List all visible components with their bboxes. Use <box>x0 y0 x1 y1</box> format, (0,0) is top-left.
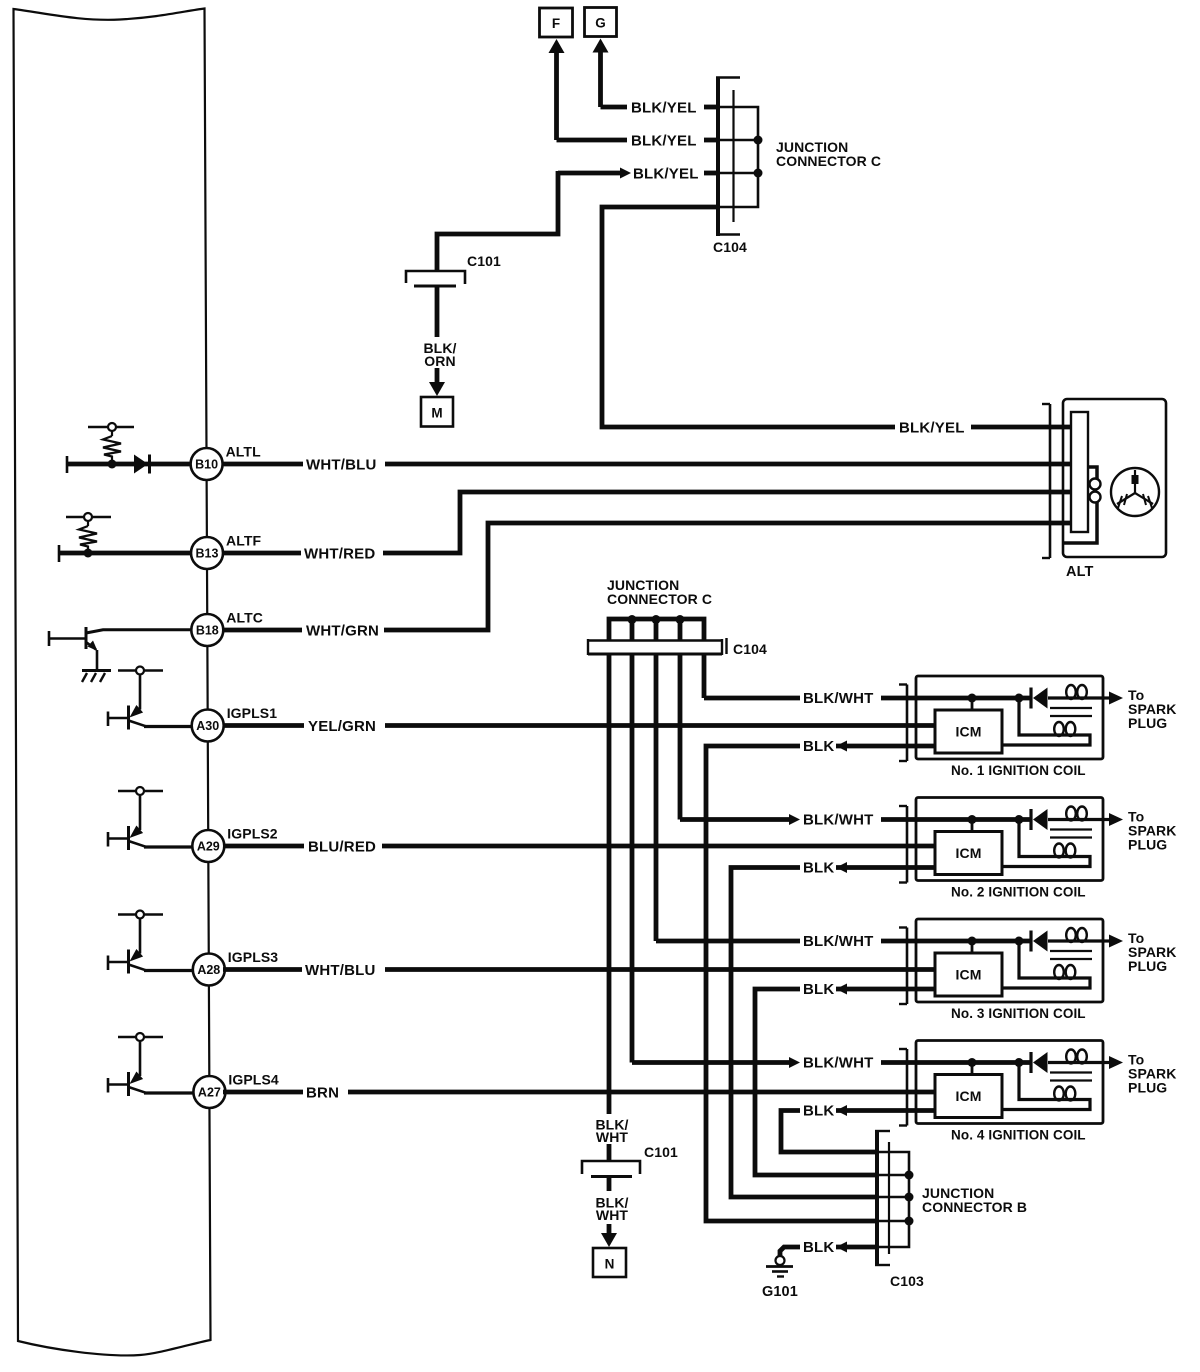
No.3 coil connector bracket <box>899 928 907 1005</box>
svg-text:C101: C101 <box>467 253 501 269</box>
resistor R2 <box>79 521 97 553</box>
collector bar above Q2 <box>118 669 163 672</box>
terminal box N <box>593 1248 626 1277</box>
core lines No.4 <box>1050 1073 1092 1081</box>
label JUNCTION CONNECTOR C (middle) <box>607 577 712 607</box>
junction dot 2b <box>1015 815 1024 824</box>
label BLK/YEL row 3 <box>633 166 699 183</box>
arrow into G <box>593 39 609 108</box>
transistor Q1 base bar <box>85 627 88 649</box>
label ALTF <box>226 533 261 549</box>
ALT pin stub 4 <box>1048 521 1071 526</box>
svg-text:C101: C101 <box>644 1144 678 1160</box>
junction connector C (middle) bus bar <box>609 619 704 640</box>
label ALTL <box>226 444 261 460</box>
resistor R1 <box>103 431 121 464</box>
junction dot C103 row4 <box>905 1217 914 1226</box>
wire WHT/GRN (ALTC) <box>223 523 1048 630</box>
wire WHT/BLU (ALTL) <box>223 462 1048 467</box>
svg-text:PLUG: PLUG <box>1128 715 1167 731</box>
ICM module U1 <box>935 710 1002 753</box>
svg-text:BLK/WHT: BLK/WHT <box>803 690 874 707</box>
label To SPARK PLUG No.2 <box>1128 809 1176 853</box>
ICM U2 top lead <box>971 820 974 832</box>
ALT rotor circle <box>1111 468 1159 516</box>
label WHT/GRN (ALTC) <box>306 623 379 640</box>
ECM pin B10 <box>191 448 223 480</box>
junction connector B (C103) bus bracket <box>879 1152 909 1247</box>
svg-text:IGPLS1: IGPLS1 <box>227 705 278 721</box>
svg-text:IGPLS4: IGPLS4 <box>228 1072 279 1088</box>
ICM U3 top lead <box>971 941 974 953</box>
junction dot 4b <box>1015 1058 1024 1067</box>
junction connector C (C104 top) body <box>716 77 740 236</box>
svg-text:IGPLS2: IGPLS2 <box>227 826 278 842</box>
wire BLK to ground G101 <box>780 1247 877 1256</box>
alternator ALT case <box>1063 399 1166 557</box>
wire BLK/WHT to No.2 coil <box>680 814 1031 825</box>
terminal tick B10 row <box>66 456 69 473</box>
wire B13 internal <box>59 551 191 556</box>
wire BLK/YEL row 1 (to G) <box>601 105 721 110</box>
primary winding No.4 <box>1048 1050 1103 1064</box>
svg-text:BLK: BLK <box>803 860 834 877</box>
diode D4 <box>1031 931 1048 952</box>
label No. 1 IGNITION COIL <box>951 763 1086 778</box>
svg-text:WHT/RED: WHT/RED <box>304 546 375 563</box>
label BLK (No.2 coil) <box>803 860 834 877</box>
label BLK/YEL row 2 <box>631 133 697 150</box>
transistor Q3 <box>108 795 193 850</box>
ICM module U4 <box>935 1075 1002 1118</box>
junction dot 2a <box>968 815 977 824</box>
ICM U1 top lead <box>971 698 974 710</box>
open terminal circle Q2 <box>136 667 144 675</box>
ground G101 symbol <box>766 1256 793 1277</box>
svg-text:BRN: BRN <box>306 1085 339 1102</box>
wire WHT/RED (ALTF) <box>223 492 1048 553</box>
label C103 <box>890 1273 924 1289</box>
svg-text:A28: A28 <box>197 963 220 977</box>
svg-text:ICM: ICM <box>956 1088 982 1104</box>
junction connector C (middle) body <box>588 638 727 655</box>
core lines No.3 <box>1050 951 1092 959</box>
svg-text:ICM: ICM <box>956 845 982 861</box>
svg-text:BLK/WHT: BLK/WHT <box>803 933 874 950</box>
connector C101 (bottom) <box>582 1161 640 1177</box>
transistor Q2 <box>108 675 193 730</box>
junction dot 4a <box>968 1058 977 1067</box>
label ALT <box>1066 564 1093 580</box>
svg-text:BLK/WHT: BLK/WHT <box>803 812 874 829</box>
ECM pin A27 <box>193 1076 225 1108</box>
primary winding No.3 <box>1048 928 1103 942</box>
label JUNCTION CONNECTOR B <box>922 1185 1027 1215</box>
svg-text:No. 1 IGNITION COIL: No. 1 IGNITION COIL <box>951 763 1086 778</box>
wire pin1 vertical (BLK/WHT to C101 bottom) <box>607 654 612 1114</box>
svg-text:CONNECTOR C: CONNECTOR C <box>776 153 881 169</box>
open terminal circle Q3 <box>136 787 144 795</box>
arrowhead on BLK/YEL row 3 <box>620 168 631 179</box>
terminal box G <box>585 8 617 37</box>
connector C101 (top) <box>406 271 465 286</box>
No.2 ignition coil case <box>916 798 1103 881</box>
junction dot C104 top row3 <box>754 169 763 178</box>
ALT stator winding lead <box>1064 467 1097 543</box>
wire BLK return from No.2 coil <box>731 862 936 1197</box>
svg-text:ORN: ORN <box>424 353 455 369</box>
wire BLK/WHT to No.4 coil <box>632 1057 1031 1068</box>
wire BRN (IGPLS4) <box>223 1090 936 1095</box>
label BLK (No.1 coil) <box>803 738 834 755</box>
secondary winding No.2 <box>1003 820 1090 867</box>
primary winding No.1 <box>1048 685 1103 699</box>
wire BLK/WHT to No.1 coil <box>704 696 1031 701</box>
svg-text:A27: A27 <box>198 1086 221 1100</box>
junction dot 3a <box>968 937 977 946</box>
junction dot 3b <box>1015 937 1024 946</box>
collector bar above Q3 <box>118 790 163 793</box>
No.2 coil connector bracket <box>899 806 907 883</box>
label C104 (middle) <box>733 641 767 657</box>
transistor Q1 base lead <box>49 637 86 640</box>
label BLK (No.3 coil) <box>803 981 834 998</box>
label BLK/WHT (No.2 coil) <box>803 812 874 829</box>
svg-text:No. 2 IGNITION COIL: No. 2 IGNITION COIL <box>951 885 1086 900</box>
wire pin2 vertical (to No.4 coil) <box>630 654 635 1063</box>
svg-text:PLUG: PLUG <box>1128 1080 1167 1096</box>
open terminal circle R1 <box>108 423 116 431</box>
secondary winding No.3 <box>1003 941 1090 988</box>
junction connector B (C103) body <box>875 1130 890 1266</box>
ALT connector bracket <box>1042 404 1050 558</box>
core lines No.1 <box>1050 708 1092 716</box>
arrow into F <box>549 39 565 140</box>
label C104 (top) <box>713 239 747 255</box>
arrowhead BLK ground wire <box>836 1242 847 1253</box>
ALT pin stub 2 <box>1048 462 1071 467</box>
svg-text:B18: B18 <box>196 624 219 638</box>
secondary winding No.4 <box>1003 1063 1090 1110</box>
ECM pin A28 <box>193 954 225 986</box>
junction dot C104-mid pin4 <box>676 615 685 624</box>
label C101 (bottom) <box>644 1144 678 1160</box>
pull-up bar above R1 <box>88 426 134 429</box>
ECM pin B18 <box>191 614 223 646</box>
arrow to spark plug No.1 <box>1103 692 1123 705</box>
No.4 coil connector bracket <box>899 1049 907 1126</box>
svg-text:ICM: ICM <box>956 967 982 983</box>
ICM module U3 <box>935 953 1002 996</box>
svg-text:C104: C104 <box>713 239 747 255</box>
arrow into N <box>601 1224 617 1247</box>
ground under Q1 <box>82 671 111 683</box>
svg-text:PLUG: PLUG <box>1128 958 1167 974</box>
ALT pin stub 1 <box>1048 425 1071 430</box>
label IGPLS3 <box>228 949 279 965</box>
collector bar above Q4 <box>118 913 163 916</box>
wire WHT/BLU (IGPLS3) <box>223 967 936 972</box>
label G101 <box>762 1284 798 1300</box>
svg-text:BLK/YEL: BLK/YEL <box>899 420 965 437</box>
svg-text:C104: C104 <box>733 641 767 657</box>
svg-text:BLK: BLK <box>803 1239 834 1256</box>
svg-text:C103: C103 <box>890 1273 924 1289</box>
label BLK/YEL (ALT feed) <box>899 420 965 437</box>
ICM module U2 <box>935 832 1002 875</box>
label YEL/GRN (IGPLS1) <box>308 718 376 735</box>
svg-text:ALTL: ALTL <box>226 444 261 460</box>
collector bar above Q5 <box>118 1036 163 1039</box>
svg-text:CONNECTOR C: CONNECTOR C <box>607 591 712 607</box>
core lines No.2 <box>1050 830 1092 838</box>
diode D5 <box>1031 1052 1048 1073</box>
No.1 ignition coil case <box>916 676 1103 759</box>
svg-text:N: N <box>605 1257 615 1272</box>
label BLK/WHT (below C101 bottom) <box>595 1195 628 1224</box>
junction dot B13/resistor <box>84 549 93 558</box>
label To SPARK PLUG No.1 <box>1128 687 1176 731</box>
label C101 (top) <box>467 253 501 269</box>
junction dot C104 top row2 <box>754 136 763 145</box>
wire below C101 bottom <box>607 1177 612 1192</box>
ECM pin A29 <box>192 830 224 862</box>
transistor Q4 <box>108 919 193 974</box>
svg-text:WHT/GRN: WHT/GRN <box>306 623 379 640</box>
svg-text:G: G <box>595 16 606 31</box>
svg-text:A30: A30 <box>196 719 219 733</box>
label No. 4 IGNITION COIL <box>951 1128 1086 1143</box>
transistor Q1 collector lead <box>86 630 191 633</box>
ALT pin stub 3 <box>1048 490 1071 495</box>
svg-text:PLUG: PLUG <box>1128 837 1167 853</box>
wire BLK/ORN <box>435 286 440 337</box>
label BLK/WHT (No.1 coil) <box>803 690 874 707</box>
svg-text:YEL/GRN: YEL/GRN <box>308 718 376 735</box>
wire BLK return from No.1 coil <box>706 741 936 1222</box>
svg-text:B10: B10 <box>195 458 218 472</box>
svg-text:BLK: BLK <box>803 738 834 755</box>
svg-text:No. 3 IGNITION COIL: No. 3 IGNITION COIL <box>951 1006 1086 1021</box>
label WHT/RED (ALTF) <box>304 546 375 563</box>
svg-text:CONNECTOR B: CONNECTOR B <box>922 1199 1027 1215</box>
ALT stator coil loops <box>1090 479 1101 503</box>
wire pin4 vertical (to No.2 coil) <box>678 654 683 820</box>
wire BLK return from No.4 coil <box>781 1105 936 1152</box>
transistor Q5 <box>108 1041 193 1096</box>
junction dot C103 row2 <box>905 1171 914 1180</box>
junction dot C104-mid pin2 <box>628 615 637 624</box>
junction connector C (C104 top) bus bracket <box>719 107 758 207</box>
terminal tick B18 row <box>48 631 51 646</box>
transistor Q1 emitter lead <box>86 641 98 670</box>
svg-text:BLK/YEL: BLK/YEL <box>631 133 697 150</box>
arrow to spark plug No.4 <box>1103 1056 1123 1069</box>
svg-text:ALTC: ALTC <box>226 610 263 626</box>
diode D1 <box>134 455 150 474</box>
label To SPARK PLUG No.3 <box>1128 930 1176 974</box>
wire pin5 vertical (to No.1 coil) <box>702 654 707 698</box>
label No. 2 IGNITION COIL <box>951 885 1086 900</box>
wire B10 internal <box>67 462 191 467</box>
junction dot B10/resistor <box>108 460 117 469</box>
label JUNCTION CONNECTOR C (top) <box>776 139 881 169</box>
svg-text:WHT/BLU: WHT/BLU <box>306 457 377 474</box>
label BLU/RED (IGPLS2) <box>308 839 376 856</box>
wire BLK/YEL row 2 (to F) <box>557 138 721 143</box>
svg-text:WHT: WHT <box>596 1129 629 1145</box>
svg-text:ALT: ALT <box>1066 564 1093 580</box>
pull-up bar above R2 <box>66 516 111 519</box>
open terminal circle R2 <box>84 513 92 521</box>
svg-text:BLU/RED: BLU/RED <box>308 839 376 856</box>
svg-text:ICM: ICM <box>956 724 982 740</box>
label BLK/ORN <box>423 340 456 369</box>
label BLK (ground wire) <box>803 1239 834 1256</box>
label BRN (IGPLS4) <box>306 1085 339 1102</box>
junction dot 1b <box>1015 694 1024 703</box>
junction dot C103 row3 <box>905 1193 914 1202</box>
terminal box F <box>540 8 573 37</box>
label IGPLS2 <box>227 826 278 842</box>
wire BLK/YEL row 3 (to C101) <box>437 171 720 270</box>
wire BLK/YEL row 4 (to ALT) <box>602 207 1048 427</box>
wire BLU/RED (IGPLS2) <box>223 844 936 849</box>
label ALTC <box>226 610 263 626</box>
svg-text:BLK/WHT: BLK/WHT <box>803 1055 874 1072</box>
svg-text:BLK/YEL: BLK/YEL <box>631 100 697 117</box>
wire BLK return from No.3 coil <box>755 984 936 1176</box>
label BLK/WHT (No.3 coil) <box>803 933 874 950</box>
arrow to spark plug No.3 <box>1103 935 1123 948</box>
diode D2 <box>1031 688 1048 709</box>
No.1 coil connector bracket <box>899 685 907 762</box>
label IGPLS1 <box>227 705 278 721</box>
label IGPLS4 <box>228 1072 279 1088</box>
arrow to spark plug No.2 <box>1103 813 1123 826</box>
label BLK (No.4 coil) <box>803 1103 834 1120</box>
svg-text:No. 4 IGNITION COIL: No. 4 IGNITION COIL <box>951 1128 1086 1143</box>
svg-text:IGPLS3: IGPLS3 <box>228 949 279 965</box>
svg-text:BLK: BLK <box>803 981 834 998</box>
svg-text:WHT: WHT <box>596 1207 629 1223</box>
arrow into M <box>429 368 445 396</box>
ICM U4 top lead <box>971 1063 974 1075</box>
label To SPARK PLUG No.4 <box>1128 1052 1176 1096</box>
wire pin3 vertical (to No.3 coil) <box>654 654 659 941</box>
No.4 ignition coil case <box>916 1041 1103 1124</box>
label WHT/BLU (IGPLS3) <box>305 962 376 979</box>
label BLK/WHT (above C101 bottom) <box>595 1117 628 1146</box>
svg-text:G101: G101 <box>762 1284 798 1300</box>
terminal box M <box>421 397 453 427</box>
ALT internal connector strip <box>1071 412 1088 532</box>
svg-text:BLK: BLK <box>803 1103 834 1120</box>
ECM control-module box outline <box>14 9 211 1356</box>
svg-text:ALTF: ALTF <box>226 533 261 549</box>
label BLK/YEL row 1 <box>631 100 697 117</box>
label BLK/WHT (No.4 coil) <box>803 1055 874 1072</box>
diode D3 <box>1031 809 1048 830</box>
wire YEL/GRN (IGPLS1) <box>223 723 936 728</box>
svg-text:BLK/YEL: BLK/YEL <box>633 166 699 183</box>
open terminal circle Q5 <box>136 1033 144 1041</box>
wire into C101 bottom <box>607 1144 612 1161</box>
svg-text:M: M <box>431 406 442 421</box>
junction dot C104-mid pin3 <box>652 615 661 624</box>
secondary winding No.1 <box>1003 698 1090 745</box>
label WHT/BLU (ALTL) <box>306 457 377 474</box>
svg-text:A29: A29 <box>197 840 220 854</box>
terminal tick B13 row <box>58 545 61 562</box>
svg-text:B13: B13 <box>196 547 219 561</box>
svg-text:F: F <box>552 16 560 31</box>
junction dot 1a <box>968 694 977 703</box>
wire BLK/WHT to No.3 coil <box>656 939 1031 944</box>
ECM pin B13 <box>191 537 223 569</box>
No.3 ignition coil case <box>916 919 1103 1002</box>
open terminal circle Q4 <box>136 911 144 919</box>
primary winding No.2 <box>1048 807 1103 821</box>
label No. 3 IGNITION COIL <box>951 1006 1086 1021</box>
ECM pin A30 <box>192 710 224 742</box>
svg-text:WHT/BLU: WHT/BLU <box>305 962 376 979</box>
